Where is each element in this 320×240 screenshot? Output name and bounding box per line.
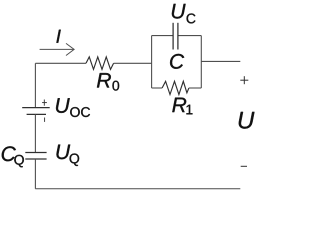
- capacitor CQ bottom plate: [25, 158, 46, 160]
- wire CQ to bottom: [34, 159, 36, 189]
- RC box left vertical: [151, 36, 153, 88]
- wire bottom rail left: [152, 87, 163, 89]
- label R1 R: [172, 98, 186, 112]
- wire battery to CQ: [34, 114, 36, 152]
- wire top-left vertical: [34, 63, 36, 108]
- label R0 R: [97, 73, 111, 87]
- wire bottom: [35, 188, 240, 190]
- label UOC U: [56, 98, 70, 113]
- label R0 sub0: [112, 81, 119, 91]
- wire R0 to RC box: [114, 62, 152, 64]
- wire top rail left: [152, 35, 173, 37]
- terminal minus mark: [241, 165, 247, 167]
- battery plus mark: [42, 100, 47, 106]
- label UQ U: [57, 145, 71, 160]
- capacitor CQ top plate: [25, 152, 46, 154]
- RC box right vertical: [200, 36, 202, 88]
- label UOC subOC: [70, 107, 90, 117]
- current arrow: [40, 43, 75, 55]
- capacitor C plate left: [172, 23, 174, 50]
- battery minus mark: [44, 118, 46, 122]
- label R1 sub1: [186, 105, 192, 115]
- wire box to plus terminal: [201, 60, 240, 62]
- battery UOC short plate: [27, 113, 46, 115]
- wire bottom rail right: [189, 87, 201, 89]
- capacitor C plate right: [177, 23, 179, 50]
- label UC subC: [187, 13, 196, 23]
- label UC U: [172, 4, 186, 19]
- label CQ C: [2, 146, 16, 161]
- resistor R0: [86, 57, 114, 70]
- wire top horizontal to R0: [35, 62, 86, 64]
- battery UOC long plate: [22, 107, 50, 109]
- label C: [170, 54, 184, 69]
- label UQ subQ: [70, 154, 80, 166]
- terminal plus mark: [240, 76, 248, 84]
- label CQ subQ: [14, 155, 24, 167]
- resistor R1: [162, 81, 189, 94]
- label U terminal: [239, 112, 255, 129]
- label I: [56, 30, 60, 43]
- wire top rail right: [178, 35, 201, 37]
